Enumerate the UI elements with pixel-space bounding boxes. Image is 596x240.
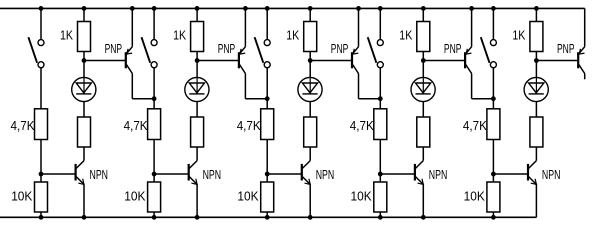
node: junction 1K/LED/PNP-base (stage 2) [195,59,199,63]
LED D5 cathode bar [529,93,544,95]
node: top rail junction above switch S4 [378,6,382,10]
wire: resistor to NPN collector (stage 3) [309,147,311,161]
wire: LED to series resistor (stage 3) [309,102,311,117]
switch S1 bottom contact [38,62,44,68]
resistor (LED series, stage 2) [191,117,204,147]
wire: 10K to ground rail (stage 1) [40,212,42,217]
wire: rail to resistor 1K (stage 5) [535,8,537,21]
resistor (LED series, stage 3) [304,117,317,147]
LED D2 cathode bar [189,93,204,95]
wire: PNP collector to next stage switch column (stage 1) [132,98,154,100]
transistor Q5b NPN base bar [527,164,529,181]
wire: switch S1 to resistor 4,7K [40,68,42,109]
node: top rail junction above switch S1 [39,6,43,10]
wire: LED to series resistor (stage 1) [83,102,85,117]
wire: resistor to NPN collector (stage 2) [196,147,198,161]
node: junction 1K/LED/PNP-base (stage 5) [535,59,539,63]
transistor Q3b NPN emitter arrow [305,179,311,185]
wire: NPN emitter to ground rail (stage 2) [196,184,198,217]
wire: through LED D2 [196,78,198,94]
resistor 10K (stage 4) [374,182,387,212]
resistor (LED series, stage 4) [417,117,430,147]
wire: PNP collector down (stage 2) [244,74,246,99]
wire: rail to PNP emitter (stage 1) [131,8,133,46]
switch S4 top contact [377,40,383,46]
wire: 4,7K to 10K (stage 4) [379,140,381,183]
wire: rail to resistor 1K (stage 4) [422,8,424,21]
svg-text:NPN: NPN [542,167,561,182]
node: junction of PNP collector feed and switch column (stage 4) [378,97,382,101]
transistor Q5b NPN emitter lead [529,177,537,185]
wire: LED to series resistor (stage 2) [196,102,198,117]
node: ground rail junction under 10K (stage 5) [492,215,496,219]
LED D4 body [411,77,435,101]
node: ground rail junction under NPN (stage 3) [308,215,312,219]
svg-text:4,7K: 4,7K [237,118,261,133]
LED D5 anode triangle [529,83,544,93]
switch S1 top contact [38,40,44,46]
wire: base tap to NPN transistor (stage 3) [267,173,301,175]
wire: base tap to NPN transistor (stage 5) [493,173,527,175]
wire: 1K to LED (stage 3) [309,52,311,78]
wire: 10K to ground rail (stage 5) [492,212,494,217]
resistor 4,7K (stage 2) [148,109,161,140]
switch S2 bottom contact [151,62,157,68]
svg-text:NPN: NPN [429,167,448,182]
wire: rail to PNP emitter (stage 2) [244,8,246,46]
wire: 10K to ground rail (stage 4) [379,212,381,217]
node: top rail junction above 1K (stage 4) [421,6,425,10]
wire: 1K to LED (stage 2) [196,52,198,78]
resistor 4,7K (stage 1) [35,109,48,140]
transistor Q5a PNP collector lead [579,65,585,74]
svg-text:4,7K: 4,7K [11,118,35,133]
node: top rail junction above PNP (stage 2) [244,6,248,10]
node: NPN base tap junction (stage 3) [265,172,269,176]
transistor Q1a PNP emitter lead [126,47,132,54]
node: NPN base tap junction (stage 4) [378,172,382,176]
wire: junction to PNP base (stage 5) [536,60,577,62]
switch S3 top contact [264,40,270,46]
transistor Q1b NPN emitter lead [76,177,84,185]
wire: rail to PNP emitter (stage 3) [358,8,360,46]
svg-text:10K: 10K [351,189,372,204]
transistor Q3b NPN base bar [301,164,303,181]
svg-text:10K: 10K [237,189,258,204]
wire: through LED D5 [535,78,537,94]
switch S5 lever (open) [481,37,490,63]
resistor 4,7K (stage 3) [261,109,274,140]
transistor Q1b NPN emitter arrow [78,179,84,185]
wire: junction to PNP base (stage 3) [310,60,351,62]
LED D2 body [185,77,209,101]
wire: switch S4 to resistor 4,7K [379,68,381,109]
switch S3 bottom contact [264,62,270,68]
wire: rail to switch S2 [153,8,155,39]
node: NPN base tap junction (stage 1) [39,172,43,176]
wire: PNP collector stub (stage 5) [584,74,586,80]
wire: 4,7K to 10K (stage 3) [266,140,268,183]
transistor Q2b NPN base bar [188,164,190,181]
LED D5 body [524,77,548,101]
transistor Q3b NPN collector lead [302,161,310,169]
transistor Q5a PNP emitter arrow [579,49,584,54]
wire: rail to PNP emitter (stage 4) [471,8,473,46]
wire: LED to series resistor (stage 5) [535,102,537,117]
transistor Q5a PNP base bar [577,52,579,68]
resistor (LED series, stage 1) [78,117,91,147]
svg-text:4,7K: 4,7K [350,118,374,133]
transistor Q4a PNP emitter arrow [466,49,471,54]
wire: junction to PNP base (stage 2) [197,60,238,62]
node: top rail junction above 1K (stage 1) [82,6,86,10]
node: NPN base tap junction (stage 2) [152,172,156,176]
svg-text:PNP: PNP [218,41,236,56]
node: top rail junction above 1K (stage 3) [308,6,312,10]
node: top rail junction above 1K (stage 5) [535,6,539,10]
node: ground rail junction under 10K (stage 1) [39,215,43,219]
resistor 10K (stage 1) [35,182,48,212]
resistor 1K (stage 3) [304,22,317,52]
switch S2 lever (open) [142,37,151,63]
wire: through LED D1 [83,78,85,94]
node: junction of PNP collector feed and switch column (stage 2) [152,97,156,101]
wire: PNP collector to next stage switch column (stage 2) [245,98,267,100]
node: top rail junction above switch S2 [152,6,156,10]
LED D3 anode triangle [302,83,317,93]
transistor Q2a PNP emitter lead [240,47,246,54]
LED D1 cathode bar [76,93,91,95]
svg-text:1K: 1K [60,27,73,42]
wire: rail to switch S3 [266,8,268,39]
node: junction 1K/LED/PNP-base (stage 1) [82,59,86,63]
resistor 10K (stage 3) [261,182,274,212]
wire: switch S5 to resistor 4,7K [492,68,494,109]
LED D4 anode triangle [416,83,431,93]
resistor 1K (stage 5) [530,22,543,52]
transistor Q1b NPN base bar [74,164,76,181]
node: top rail junction above switch S5 [492,6,496,10]
wire: 1K to LED (stage 5) [535,52,537,78]
transistor Q4a PNP collector lead [466,65,472,74]
svg-text:10K: 10K [124,189,145,204]
svg-text:4,7K: 4,7K [124,118,148,133]
switch S5 top contact [490,40,496,46]
node: ground rail junction under 10K (stage 2) [152,215,156,219]
transistor Q3a PNP emitter arrow [353,49,358,54]
wire: NPN emitter to ground rail (stage 3) [309,184,311,217]
node: top rail junction above PNP (stage 1) [130,6,134,10]
transistor Q4b NPN collector lead [416,161,424,169]
transistor Q4a PNP emitter lead [466,47,472,54]
svg-text:PNP: PNP [331,41,349,56]
LED D4 cathode bar [416,93,431,95]
wire: 10K to ground rail (stage 2) [153,212,155,217]
transistor Q3a PNP emitter lead [353,47,359,54]
wire: switch S3 to resistor 4,7K [266,68,268,109]
wire: base tap to NPN transistor (stage 4) [380,173,414,175]
wire: 1K to LED (stage 4) [422,52,424,78]
transistor Q2a PNP collector lead [240,65,246,74]
wire: top supply rail [0,7,585,9]
transistor Q2b NPN emitter lead [189,177,197,185]
transistor Q1b NPN collector lead [76,161,84,169]
wire: rail to switch S5 [492,8,494,39]
node: ground rail junction under 10K (stage 3) [265,215,269,219]
LED D1 anode triangle [76,83,91,93]
svg-text:4,7K: 4,7K [463,118,487,133]
wire: NPN emitter to ground rail (stage 4) [422,184,424,217]
wire: 4,7K to 10K (stage 1) [40,140,42,183]
wire: rail to PNP emitter (stage 5) [584,8,586,46]
transistor Q2b NPN collector lead [189,161,197,169]
switch S4 bottom contact [377,62,383,68]
wire: PNP collector down (stage 3) [358,74,360,99]
transistor Q1a PNP collector lead [126,65,132,74]
transistor Q4a PNP base bar [464,52,466,68]
wire: 4,7K to 10K (stage 5) [492,140,494,183]
transistor Q3a PNP collector lead [353,65,359,74]
wire: 1K to LED (stage 1) [83,52,85,78]
wire: 4,7K to 10K (stage 2) [153,140,155,183]
svg-text:NPN: NPN [316,167,335,182]
wire: PNP collector down (stage 4) [471,74,473,99]
wire: bottom ground rail [0,216,536,218]
transistor Q2b NPN emitter arrow [191,179,197,185]
transistor Q3a PNP base bar [351,52,353,68]
transistor Q5b NPN emitter arrow [531,179,537,185]
LED D1 body [72,77,96,101]
LED D3 cathode bar [302,93,317,95]
resistor 4,7K (stage 5) [487,109,500,140]
wire: through LED D3 [309,78,311,94]
resistor 4,7K (stage 4) [374,109,387,140]
wire: rail to switch S4 [379,8,381,39]
node: top rail junction above 1K (stage 2) [195,6,199,10]
transistor Q1a PNP emitter arrow [127,49,132,54]
switch S3 lever (open) [255,37,264,63]
svg-text:PNP: PNP [444,41,462,56]
node: ground rail junction under NPN (stage 2) [195,215,199,219]
svg-text:1K: 1K [512,27,525,42]
wire: junction to PNP base (stage 1) [84,60,125,62]
wire: rail to switch S1 [40,8,42,39]
wire: NPN emitter to ground rail (stage 5) [535,184,537,217]
svg-text:PNP: PNP [105,41,123,56]
node: junction 1K/LED/PNP-base (stage 4) [421,59,425,63]
wire: resistor to NPN collector (stage 4) [422,147,424,161]
svg-text:PNP: PNP [557,41,575,56]
resistor 10K (stage 2) [148,182,161,212]
wire: LED to series resistor (stage 4) [422,102,424,117]
svg-text:1K: 1K [286,27,299,42]
resistor 1K (stage 4) [417,22,430,52]
node: top rail junction above PNP (stage 3) [357,6,361,10]
wire: rail to resistor 1K (stage 1) [83,8,85,21]
transistor Q4b NPN base bar [414,164,416,181]
wire: PNP collector to next stage switch column (stage 3) [359,98,381,100]
node: top rail junction above switch S3 [265,6,269,10]
wire: PNP collector to next stage switch column (stage 4) [472,98,494,100]
resistor 1K (stage 2) [191,22,204,52]
node: ground rail junction under 10K (stage 4) [378,215,382,219]
switch S4 lever (open) [368,37,377,63]
switch S5 bottom contact [490,62,496,68]
transistor Q1a PNP base bar [125,52,127,68]
node: junction of PNP collector feed and switch column (stage 5) [492,97,496,101]
wire: junction to PNP base (stage 4) [423,60,464,62]
transistor Q5a PNP emitter lead [579,47,585,54]
switch S2 top contact [151,40,157,46]
transistor Q2a PNP emitter arrow [240,49,245,54]
resistor (LED series, stage 5) [530,117,543,147]
transistor Q5b NPN collector lead [529,161,537,169]
wire: base tap to NPN transistor (stage 1) [41,173,75,175]
wire: resistor to NPN collector (stage 1) [83,147,85,161]
node: ground rail junction under NPN (stage 4) [421,215,425,219]
transistor Q4b NPN emitter arrow [418,179,424,185]
wire: base tap to NPN transistor (stage 2) [154,173,188,175]
wire: 10K to ground rail (stage 3) [266,212,268,217]
node: ground rail junction under NPN (stage 1) [82,215,86,219]
svg-text:1K: 1K [399,27,412,42]
wire: resistor to NPN collector (stage 5) [535,147,537,161]
transistor Q3b NPN emitter lead [302,177,310,185]
switch S1 lever (open) [28,37,37,63]
node: junction 1K/LED/PNP-base (stage 3) [308,59,312,63]
node: top rail junction above PNP (stage 4) [470,6,474,10]
svg-text:NPN: NPN [90,167,109,182]
node: NPN base tap junction (stage 5) [492,172,496,176]
LED D3 body [298,77,322,101]
transistor Q4b NPN emitter lead [416,177,424,185]
wire: switch S2 to resistor 4,7K [153,68,155,109]
wire: PNP collector down (stage 1) [131,74,133,99]
svg-text:1K: 1K [173,27,186,42]
resistor 1K (stage 1) [78,22,91,52]
svg-text:10K: 10K [11,189,32,204]
wire: through LED D4 [422,78,424,94]
node: junction of PNP collector feed and switch column (stage 3) [265,97,269,101]
resistor 10K (stage 5) [487,182,500,212]
wire: NPN emitter to ground rail (stage 1) [83,184,85,217]
svg-text:NPN: NPN [203,167,222,182]
transistor Q2a PNP base bar [238,52,240,68]
wire: rail to resistor 1K (stage 3) [309,8,311,21]
wire: rail to resistor 1K (stage 2) [196,8,198,21]
LED D2 anode triangle [189,83,204,93]
svg-text:10K: 10K [464,189,485,204]
